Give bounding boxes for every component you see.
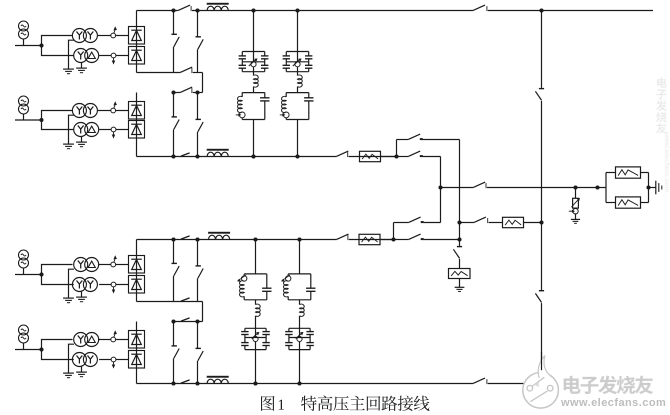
wire tap to valve V11 (116, 35, 129, 37)
measurement CT filter DF4 LC (286, 276, 291, 281)
disconnector QS17 (neutral bus upper) (539, 88, 544, 90)
tuned LC section filter DF4 (288, 273, 311, 275)
capacitor bank H-bridge filter DF4 (289, 327, 310, 329)
smoothing reactor L2 (pole line P1) (207, 152, 228, 156)
disconnector QS8 (cross link) (409, 217, 421, 222)
wire valve V22 to pole line P1 (136, 138, 138, 157)
wire to T1b (42, 46, 74, 56)
disconnector QS12 (pole line P2 right) (337, 234, 349, 239)
bypass branch V1b wire (197, 11, 199, 37)
wire line L4 (valve group 4 high side) (174, 321, 203, 323)
wire filter DF3 to bottom bus (255, 350, 257, 384)
ground T1a neutral (69, 40, 75, 69)
wire neutral bus into logo (541, 352, 543, 370)
ground (DC line arrester) (571, 218, 580, 220)
wire G3 stem (23, 268, 25, 275)
junction DC line arrester tap (573, 185, 577, 189)
generator G3 (19, 250, 29, 260)
wire to T4b (42, 350, 74, 360)
ground T3b neutral (81, 292, 83, 297)
wire top bus (pole 1 high side) (137, 10, 179, 12)
junction V2 / y223 link (457, 220, 461, 224)
wire T1b to valve (99, 55, 111, 57)
valve V41 (6-pulse bridge) (129, 331, 145, 349)
disconnector QS10 (V2 ground branch) (457, 246, 462, 248)
junction bottom bus x197 (195, 381, 199, 385)
tuned LC section filter DF1 (242, 92, 265, 94)
wire T3a to valve (98, 264, 111, 266)
wire arrester pair right riser (648, 173, 650, 203)
wire valve series link (136, 273, 138, 276)
junction bottom bus filter tap 1 (253, 381, 257, 385)
wire J1 riser up (396, 140, 398, 157)
bypass switch Q3a (172, 262, 177, 264)
bypass switch Q4b (196, 347, 201, 349)
wire neutral bus middle (541, 101, 543, 290)
CT measurement circle (573, 209, 578, 214)
junction bottom bus filter tap 2 (297, 381, 301, 385)
wire pole line P1 (12-pulse group 1 output) (137, 156, 337, 158)
disconnector QS4 (pole line P1 left) (181, 153, 190, 156)
wire valve V41 to line L4 (136, 322, 138, 331)
series reactor filter DF2 (297, 72, 299, 76)
junction P2 x197 (195, 237, 199, 241)
junction J3 (DC line node) (438, 185, 442, 189)
wire tap to valve V31 (116, 264, 129, 266)
wire valve V32 to line L3 (136, 293, 138, 302)
inductor filter DF3 LC (243, 274, 245, 276)
transformer T4a (YΔ) (74, 333, 88, 347)
wire valve V12 to line L1 (136, 64, 138, 73)
junction L4 x197 (195, 319, 199, 323)
junction bottom bus x173 (171, 381, 175, 385)
wire into arrester A2 (606, 202, 616, 204)
wire J4 right branch (394, 239, 409, 241)
wire arrester to neutral bus (524, 222, 542, 224)
capacitor bank H-bridge filter DF2 (286, 51, 308, 53)
wire to T2b (42, 120, 74, 130)
junction top bus x173 (171, 8, 175, 12)
breaker QF3 (bottom bus right) (473, 378, 485, 383)
series reactor filter DF1 (253, 72, 255, 76)
transformer T4b (YY) (72, 353, 86, 367)
surge arrester F5 (pole line P2) (359, 234, 380, 244)
valve V32 (6-pulse bridge) (129, 276, 145, 294)
wire cross riser x394 (393, 223, 395, 240)
ground (V2 branch) (455, 286, 465, 288)
disconnector QS18 (neutral bus lower) (539, 290, 544, 292)
valve V12 (6-pulse bridge) (129, 47, 145, 65)
transformer T1a (YY) (72, 29, 86, 43)
wire arrester to node J1 (381, 156, 397, 158)
ground T2b neutral (81, 137, 83, 142)
disconnector QS14 (line L3) (181, 298, 190, 301)
wire T2b to valve (99, 129, 111, 131)
wire neutral bus lower (541, 303, 543, 383)
tap symbol T1a (111, 33, 116, 38)
tap symbol T2b (111, 127, 116, 132)
surge arrester F4 (neutral) (449, 269, 471, 279)
valve V22 (6-pulse bridge) (129, 121, 145, 139)
tap symbol T4b (111, 357, 116, 362)
junction V2 / pole 2 link (457, 237, 461, 241)
wire T4a to valve (98, 339, 111, 341)
wire filter DF2 to pole line (297, 120, 299, 157)
disconnector QS13 (J4 right branch) (409, 234, 421, 239)
wire riser V1 (x440) (440, 157, 442, 223)
wire valve V42 to bottom bus (136, 368, 138, 384)
tuned LC section filter DF3 (244, 273, 267, 275)
wire arrester to node J4 (380, 239, 394, 241)
wire filter DF2 tap (297, 11, 299, 52)
wire pole line P2 (137, 239, 337, 241)
surge arrester F1 (pole line P1) (360, 151, 381, 161)
junction L2 x173 (171, 90, 175, 94)
junction P2 filter tap 2 (297, 237, 301, 241)
wire to T3a (42, 265, 73, 275)
transformer T2b (YΔ) (74, 123, 88, 137)
measurement CT filter DF2 LC (283, 112, 289, 118)
transformer T2a (YY) (72, 104, 86, 118)
tuned LC section filter DF2 (286, 92, 309, 94)
caption 图1 特高压主回路接线 (261, 396, 275, 411)
wire to arrester F4 (459, 259, 461, 269)
capacitor bank H-bridge filter DF1 (242, 51, 264, 53)
tap symbol T1b (111, 53, 116, 58)
junction G3 feeder node (39, 272, 43, 276)
wire J1 upper branch (397, 139, 409, 141)
wire filter DF1 tap (253, 11, 255, 52)
disconnector QS1 (top bus left) (178, 5, 190, 10)
wire to T4a (42, 340, 73, 350)
junction top bus filter tap 2 (295, 8, 299, 12)
junction L4 x173 (171, 319, 175, 323)
wire G1 feeder (15, 45, 42, 47)
wire riser V2 (x459) (459, 140, 461, 247)
wire filter DF4 tap (299, 240, 301, 274)
series reactor filter DF4 (299, 300, 301, 305)
wire G3 feeder (15, 274, 42, 276)
wire tap to valve V32 (116, 284, 129, 286)
wire G4 stem (23, 343, 25, 350)
disconnector QS9 (y223 right) (474, 217, 486, 222)
wire valve V11 to top bus (136, 11, 138, 27)
surge arrester A1 (616, 167, 641, 178)
wire J1 right branch (397, 156, 409, 158)
smoothing reactor L3 (pole line P2) (209, 235, 230, 239)
wire F4 to ground (459, 279, 461, 288)
bypass branch V3a wire (173, 240, 175, 264)
wire arrester stub (575, 188, 577, 199)
smoothing reactor L4 (bottom bus) (207, 379, 228, 383)
junction arrester pair output (646, 185, 650, 189)
wire line L2 (valve group 2 high side) (174, 92, 181, 94)
surge arrester F2 (DC line) (573, 198, 579, 208)
valve V31 (6-pulse bridge) (129, 256, 145, 274)
transformer T3b (YY) (72, 278, 86, 292)
wire G2 feeder (15, 119, 42, 121)
junction J1 (pole 1 node) (394, 154, 398, 158)
wire to ground (575, 214, 577, 220)
wire filter DF4 to bottom bus (299, 350, 301, 384)
wire into arrester A1 (606, 172, 616, 174)
bypass branch V2b wire (197, 93, 199, 120)
bypass switch Q1a (172, 33, 177, 35)
disconnector QS2 (line L1) (180, 67, 192, 72)
junction G2 feeder node (39, 118, 43, 122)
wire to T3b (42, 275, 74, 285)
wire V2 lower stub (459, 246, 461, 248)
bypass switch Q1b (196, 36, 201, 38)
bypass switch Q2b (196, 118, 201, 120)
junction G1 feeder node (39, 43, 43, 47)
wire to T1a (42, 36, 73, 46)
junction top bus / neutral bus riser (539, 8, 543, 12)
wire valve series link (136, 348, 138, 351)
ground (line termination) (655, 181, 657, 195)
watermark side text (decorative) (657, 78, 667, 88)
unbalance CT filter DF2 (286, 61, 308, 63)
transformer T3a (YΔ) (74, 258, 88, 272)
capacitor filter DF3 LC (266, 274, 268, 288)
wire valve series link (136, 44, 138, 47)
measurement CT filter DF1 LC (239, 112, 245, 118)
ground T4b neutral (81, 367, 83, 372)
disconnector QS16 (bottom bus left) (181, 380, 190, 383)
wire T1a to valve (98, 35, 111, 37)
wire T4b to valve (99, 359, 111, 361)
junction DC line terminal node (595, 185, 599, 189)
ground T1b neutral (81, 63, 83, 68)
wire tap to valve V12 (116, 55, 129, 57)
disconnector QS15 (line L4) (181, 318, 190, 321)
generator G4 (19, 325, 29, 335)
wire valve V21 to line L2 (136, 93, 138, 102)
series reactor filter DF3 (255, 300, 257, 305)
disconnector QS3 (line L2) (180, 87, 192, 92)
generator G1 (19, 21, 29, 31)
unbalance CT filter DF4 (289, 337, 310, 339)
unbalance CT filter DF1 (242, 61, 264, 63)
wire terminal node to arrester pair (598, 187, 607, 189)
junction P1 filter tap 1 (251, 154, 255, 158)
wire DC pole line (441, 187, 474, 189)
junction neutral bus y223 (539, 220, 543, 224)
disconnector QS7 (J1 right branch) (408, 151, 420, 156)
svg-text:www.elecfans.com: www.elecfans.com (560, 397, 666, 409)
inductor filter DF4 LC (287, 274, 289, 276)
wire valve series link (136, 119, 138, 121)
junction G4 feeder node (39, 347, 43, 351)
wire line L1 (valve group 1 low side) (137, 72, 181, 74)
surge arrester A2 (616, 197, 641, 208)
bypass branch V4a wire (173, 322, 175, 346)
wire valve V31 to pole line P2 (136, 240, 138, 256)
junction L2 x197 (195, 90, 199, 94)
measurement CT filter DF3 LC (242, 276, 247, 281)
valve V11 (6-pulse bridge) (129, 27, 145, 45)
junction J4 (pole 2 node) (391, 237, 395, 241)
wire tap to valve V41 (116, 339, 129, 341)
wire filter DF3 tap (255, 240, 257, 274)
junction top bus filter tap 1 (251, 8, 255, 12)
wire arrester A1 out (641, 172, 649, 174)
breaker QF2 (DC line) (473, 182, 485, 187)
capacitor filter DF4 LC (310, 274, 312, 288)
generator G2 (19, 96, 29, 106)
breaker QF1 (top bus right) (473, 5, 485, 10)
tap symbol T3a (111, 262, 116, 267)
wire bottom bus (137, 383, 474, 385)
ground T2a neutral (69, 115, 75, 144)
wire G4 feeder (15, 349, 42, 351)
surge arrester F3 (neutral link) (503, 217, 524, 227)
wire arrester A2 out (641, 202, 649, 204)
wire y223 right branch (460, 222, 475, 224)
disconnector QS11 (pole line P2 left) (181, 236, 190, 239)
wire neutral bus upper (541, 11, 543, 88)
capacitor bank H-bridge filter DF3 (245, 327, 266, 329)
ground T3a neutral (69, 269, 75, 298)
wire G1 stem (23, 39, 25, 46)
smoothing reactor L1 (top bus) (207, 6, 228, 10)
wire series link L1-L2 (202, 73, 204, 93)
junction P1 x173 (171, 154, 175, 158)
junction P1 filter tap 2 (295, 154, 299, 158)
bypass switch Q3b (196, 265, 201, 267)
tap symbol T2a (111, 108, 116, 113)
junction P2 filter tap 1 (253, 237, 257, 241)
wire arrester pair left riser (605, 173, 607, 203)
bypass branch V2a wire (173, 93, 175, 117)
junction P2 x173 (171, 237, 175, 241)
ground T4a neutral (69, 344, 75, 373)
tap symbol T4a (111, 337, 116, 342)
bypass branch V1a wire (173, 11, 175, 35)
wire to line ground (649, 187, 656, 189)
wire G2 stem (23, 114, 25, 120)
wire filter DF1 to pole line (253, 120, 255, 157)
bypass switch Q4a (172, 345, 177, 347)
bypass branch V3b wire (197, 240, 199, 266)
valve V21 (6-pulse bridge) (129, 102, 145, 120)
unbalance CT filter DF3 (245, 337, 266, 339)
junction top bus x197 (195, 8, 199, 12)
disconnector QS6 (J1 upper branch) (408, 134, 420, 139)
wire series link L3-L4 (202, 302, 204, 322)
disconnector QS5 (pole line P1 right) (336, 151, 348, 156)
wire T3b to valve (99, 284, 111, 286)
watermark logo (decorative) (523, 356, 559, 409)
watermark text 电子发烧友 (decorative) (564, 376, 581, 394)
svg-text:www.elecfans.com: www.elecfans.com (663, 131, 670, 193)
wire to T2a (42, 111, 73, 121)
bypass branch V4b wire (197, 322, 199, 349)
wire tap to valve V21 (116, 110, 129, 112)
transformer T1b (YΔ) (74, 49, 88, 63)
valve V42 (6-pulse bridge) (129, 351, 145, 369)
junction P1 x197 (195, 154, 199, 158)
capacitor filter DF2 LC (308, 93, 310, 98)
wire tap to valve V22 (116, 129, 129, 131)
wire line L3 (valve group 3 low side) (137, 301, 203, 303)
bypass switch Q2a (172, 116, 177, 118)
tap symbol T3b (111, 282, 116, 287)
wire tap to valve V42 (116, 359, 129, 361)
wire cross link y223 (394, 222, 409, 224)
capacitor filter DF1 LC (264, 93, 266, 98)
wire T2a to valve (98, 110, 111, 112)
